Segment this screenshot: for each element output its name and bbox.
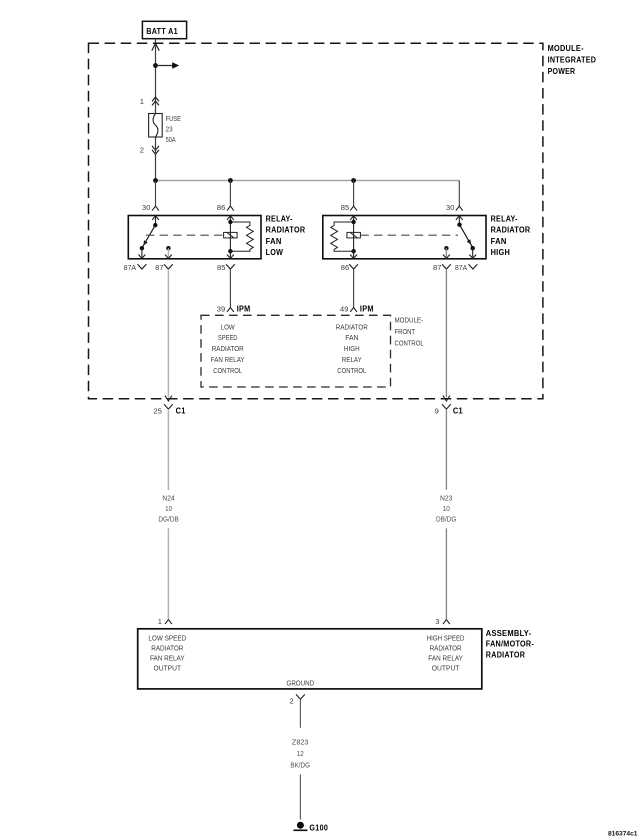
junction dot bus right	[351, 178, 356, 183]
svg-text:10: 10	[443, 504, 450, 513]
switch blade relay high	[460, 225, 473, 248]
arrow into pin 30 relay high	[456, 216, 463, 225]
svg-text:LOW: LOW	[266, 248, 284, 257]
arrow out pin 85 relay low	[227, 251, 234, 258]
arrow out pin 86 relay high	[350, 251, 357, 258]
svg-text:OUTPUT: OUTPUT	[432, 664, 460, 673]
svg-text:HIGH: HIGH	[344, 344, 360, 353]
connector vee pin 87A relay high	[469, 264, 478, 269]
coil wire relay high	[353, 222, 355, 251]
svg-text:30: 30	[446, 203, 454, 212]
svg-text:FAN/MOTOR-: FAN/MOTOR-	[486, 640, 534, 649]
coil element relay low	[224, 232, 238, 238]
svg-text:39: 39	[217, 304, 225, 313]
svg-text:12: 12	[297, 749, 304, 758]
switch common dot relay high	[457, 223, 461, 227]
connector vee pin 86 relay high	[349, 264, 358, 274]
connector fork pin 86 relay low	[227, 206, 234, 211]
coil bottom junction dot relay high	[351, 249, 355, 253]
coil wire relay low	[229, 222, 231, 251]
svg-text:FUSE: FUSE	[166, 114, 181, 123]
arrow out of module boundary left	[165, 396, 172, 401]
svg-text:CONTROL: CONTROL	[213, 366, 242, 375]
ground G100 symbol	[293, 822, 307, 831]
wire relay high 86 to IPM 49	[353, 274, 355, 307]
svg-text:HIGH: HIGH	[491, 248, 511, 257]
node RADIATOR FAN HIGH RELAY CONTROL	[336, 322, 368, 375]
svg-text:OUTPUT: OUTPUT	[154, 664, 182, 673]
wire bus to relay low pin 86	[229, 181, 231, 207]
svg-text:49: 49	[340, 304, 348, 313]
wire Z823 lower segment	[299, 774, 301, 819]
dashed box MODULE-INTEGRATED POWER	[89, 43, 543, 399]
connector fork pin 30 relay high	[456, 206, 463, 211]
wire relay low 85 to IPM 39	[229, 274, 231, 307]
svg-text:BK/DG: BK/DG	[290, 760, 310, 769]
fan motor assembly box	[138, 629, 482, 689]
svg-text:RADIATOR: RADIATOR	[336, 322, 368, 331]
dashed box MODULE-FRONT CONTROL	[201, 315, 391, 387]
wire N23 lower segment	[445, 528, 447, 619]
coil top junction dot relay high	[351, 220, 355, 224]
svg-text:LOW SPEED: LOW SPEED	[148, 634, 186, 643]
wire label N24 10 DG/DB	[158, 494, 178, 524]
svg-text:85: 85	[341, 203, 349, 212]
svg-text:87A: 87A	[455, 263, 467, 272]
dashed actuator link relay low	[146, 234, 224, 236]
svg-text:FAN RELAY: FAN RELAY	[428, 654, 463, 663]
svg-text:MODULE-: MODULE-	[548, 44, 584, 53]
contact 87A dot relay low	[140, 246, 144, 250]
svg-text:CONTROL: CONTROL	[337, 366, 366, 375]
relay K1 RADIATOR FAN LOW box	[128, 216, 261, 259]
svg-text:87: 87	[155, 263, 163, 272]
arrow into pin 85 relay high	[350, 216, 357, 222]
label MODULE-INTEGRATED POWER	[548, 44, 597, 76]
svg-text:FAN RELAY: FAN RELAY	[150, 654, 185, 663]
contact 87A dot relay high	[471, 246, 475, 250]
wire N24 upper segment	[167, 415, 169, 491]
svg-text:BATT A1: BATT A1	[146, 26, 178, 36]
node LOW SPEED RADIATOR FAN RELAY CONTROL	[211, 322, 245, 375]
switch blade relay low	[142, 225, 155, 248]
connector fork fan pin 3	[443, 620, 450, 625]
svg-text:RELAY-: RELAY-	[491, 214, 518, 223]
switch common dot relay low	[153, 223, 157, 227]
battery feed box BATT A1	[142, 21, 186, 38]
wire Z823 upper segment	[299, 705, 301, 728]
connector fork pin 30 relay low	[152, 206, 159, 211]
value label FUSE 23 50A	[166, 114, 181, 144]
svg-text:FAN: FAN	[345, 333, 358, 342]
label MODULE-FRONT CONTROL	[395, 316, 424, 348]
connector vee pin 87 relay high	[442, 264, 451, 274]
junction dot bus left	[153, 178, 158, 183]
label RELAY-RADIATOR FAN HIGH	[491, 214, 531, 257]
wire fuse to bus	[155, 137, 157, 181]
dashed actuator link relay high	[360, 234, 458, 236]
contact 87 dot relay low	[166, 246, 170, 250]
wire batt A1 down to fuse	[155, 39, 157, 114]
connector fork fan pin 1	[165, 620, 172, 625]
fuse F23 body	[149, 114, 163, 138]
svg-text:FAN: FAN	[491, 237, 507, 246]
svg-text:N24: N24	[162, 494, 174, 503]
connector chevrons pin 2	[152, 146, 159, 154]
connector fork IPM pin 39	[227, 307, 234, 312]
svg-text:25: 25	[154, 406, 162, 415]
svg-text:ASSEMBLY-: ASSEMBLY-	[486, 629, 532, 638]
suppression resistor relay high	[331, 222, 354, 251]
svg-text:DB/DG: DB/DG	[436, 515, 457, 524]
svg-text:GROUND: GROUND	[287, 678, 315, 687]
label RELAY-RADIATOR FAN LOW	[266, 214, 306, 257]
svg-text:IPM: IPM	[237, 304, 251, 313]
svg-text:RADIATOR: RADIATOR	[486, 651, 525, 660]
svg-text:C1: C1	[453, 406, 463, 415]
svg-text:INTEGRATED: INTEGRATED	[548, 56, 597, 65]
svg-text:DG/DB: DG/DB	[158, 515, 178, 524]
wire label N23 10 DB/DG	[436, 494, 457, 524]
junction dot batt feed	[153, 63, 158, 68]
svg-text:RADIATOR: RADIATOR	[430, 644, 462, 653]
connector fork pin 85 relay high	[350, 206, 357, 211]
connector chevrons pin 1	[152, 97, 159, 105]
wire bus to relay high pin 30	[458, 181, 460, 207]
svg-text:1: 1	[140, 97, 144, 106]
wire N24 lower segment	[167, 528, 169, 619]
svg-text:C1: C1	[176, 406, 186, 415]
svg-text:RADIATOR: RADIATOR	[212, 344, 244, 353]
label ASSEMBLY-FAN/MOTOR-RADIATOR	[486, 629, 534, 660]
svg-text:FRONT: FRONT	[395, 327, 416, 336]
arrow 87A to box edge relay low	[139, 248, 146, 258]
svg-text:FAN: FAN	[266, 237, 282, 246]
svg-text:9: 9	[435, 406, 439, 415]
node HIGH SPEED RADIATOR FAN RELAY OUTPUT	[427, 634, 465, 673]
svg-text:LOW: LOW	[221, 322, 236, 331]
arrow up at module boundary	[152, 43, 159, 50]
svg-text:CONTROL: CONTROL	[395, 338, 424, 347]
svg-text:86: 86	[217, 203, 225, 212]
svg-text:2: 2	[140, 145, 144, 154]
svg-text:2: 2	[290, 697, 294, 706]
connector C1 right	[442, 404, 451, 414]
suppression resistor relay low	[230, 222, 253, 251]
arrow tap to other circuits	[156, 62, 180, 69]
coil bottom junction dot relay low	[228, 249, 232, 253]
svg-text:50A: 50A	[166, 135, 176, 144]
coil top junction dot relay low	[228, 220, 232, 224]
connector vee pin 87 relay low	[164, 264, 173, 274]
svg-text:86: 86	[341, 263, 349, 272]
connector vee pin 87A relay low	[138, 264, 147, 269]
svg-text:816374c1: 816374c1	[608, 830, 638, 837]
svg-text:FAN RELAY: FAN RELAY	[211, 355, 245, 364]
wire N23 upper segment	[445, 415, 447, 490]
svg-text:MODULE-: MODULE-	[395, 316, 424, 325]
wire bus to relay low pin 30	[155, 181, 157, 207]
wire bus to relay high pin 85	[353, 181, 355, 207]
relay K2 RADIATOR FAN HIGH box	[323, 216, 486, 259]
svg-text:N23: N23	[440, 494, 452, 503]
stem 87 to box edge relay low	[165, 248, 172, 258]
svg-text:3: 3	[435, 617, 439, 626]
coil element relay high	[347, 232, 361, 238]
connector vee fan pin 2	[296, 694, 305, 704]
connector vee pin 85 relay low	[226, 264, 235, 274]
arrow out of module boundary right	[443, 396, 450, 401]
svg-text:30: 30	[142, 203, 150, 212]
stem 87 to box edge relay high	[443, 248, 450, 258]
arrow into pin 86 relay low	[227, 216, 234, 222]
arrow 87A to box edge relay high	[469, 248, 476, 258]
svg-text:10: 10	[165, 504, 172, 513]
connector C1 left	[164, 404, 173, 414]
arrow into pin 30 relay low	[152, 216, 159, 225]
junction dot bus mid	[228, 178, 233, 183]
wire N24 relay low 87 down	[167, 274, 169, 397]
connector fork IPM pin 49	[350, 307, 357, 312]
svg-text:RADIATOR: RADIATOR	[151, 644, 183, 653]
svg-text:SPEED: SPEED	[218, 333, 238, 342]
svg-text:RADIATOR: RADIATOR	[266, 226, 306, 235]
svg-text:RELAY: RELAY	[342, 355, 362, 364]
svg-text:23: 23	[166, 125, 173, 134]
wire N23 relay high 87 down	[445, 274, 447, 397]
node LOW SPEED RADIATOR FAN RELAY OUTPUT	[148, 634, 186, 673]
svg-text:Z823: Z823	[292, 737, 309, 746]
svg-text:87A: 87A	[124, 263, 136, 272]
contact 87 dot relay high	[444, 246, 448, 250]
svg-text:G100: G100	[309, 823, 328, 833]
svg-text:87: 87	[433, 263, 441, 272]
svg-text:RADIATOR: RADIATOR	[491, 226, 531, 235]
wire label Z823 12 BK/DG	[290, 737, 310, 769]
svg-text:RELAY-: RELAY-	[266, 214, 293, 223]
svg-text:HIGH SPEED: HIGH SPEED	[427, 634, 465, 643]
svg-text:85: 85	[217, 263, 225, 272]
power bus wire	[156, 180, 460, 182]
svg-text:IPM: IPM	[360, 304, 374, 313]
svg-text:POWER: POWER	[548, 67, 576, 76]
svg-text:1: 1	[158, 617, 162, 626]
